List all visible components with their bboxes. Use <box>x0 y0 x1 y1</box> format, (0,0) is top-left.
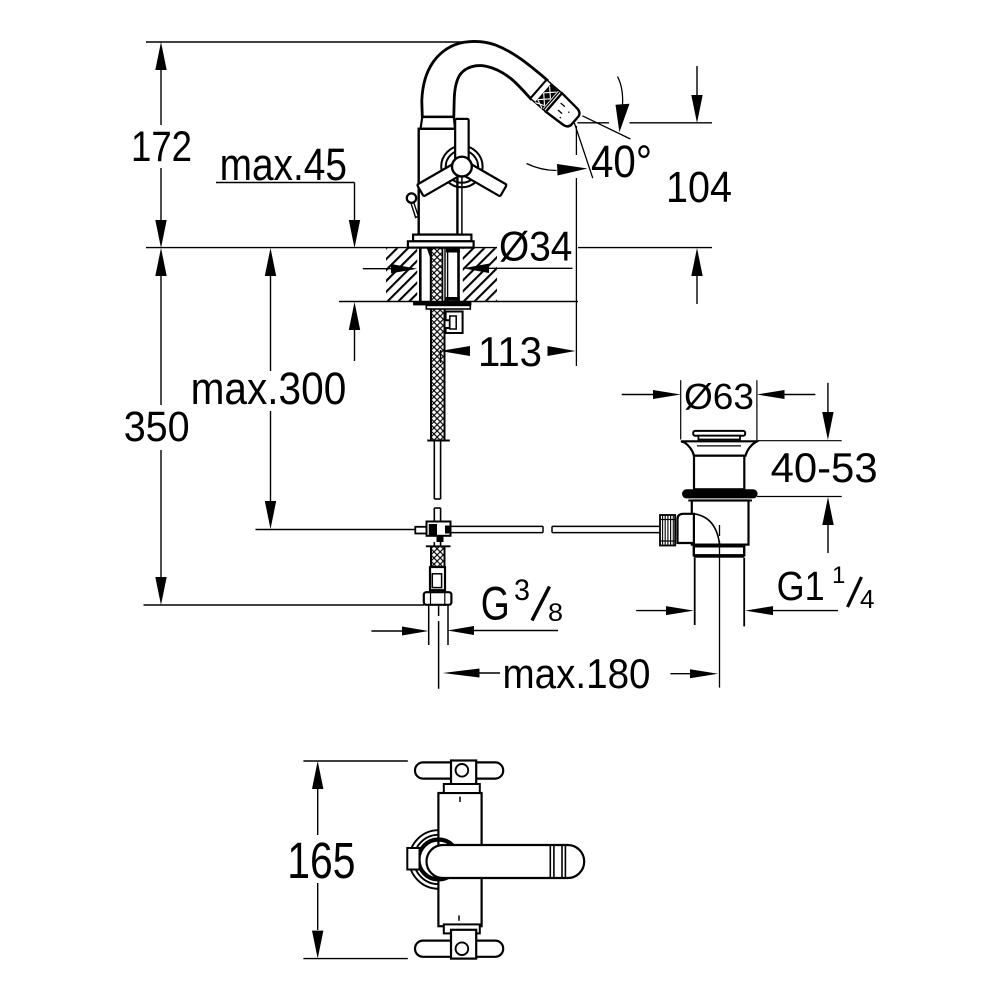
svg-text:G1: G1 <box>777 563 825 609</box>
svg-text:104: 104 <box>666 163 732 212</box>
svg-text:40-53: 40-53 <box>771 444 878 491</box>
svg-text:8: 8 <box>548 599 563 627</box>
svg-text:1: 1 <box>832 562 845 589</box>
svg-text:165: 165 <box>287 832 355 889</box>
svg-text:172: 172 <box>131 123 192 171</box>
svg-text:Ø34: Ø34 <box>499 223 572 270</box>
svg-text:max.180: max.180 <box>503 650 651 697</box>
svg-text:40°: 40° <box>591 136 652 187</box>
svg-text:max.300: max.300 <box>191 363 347 414</box>
svg-text:113: 113 <box>478 328 542 375</box>
svg-text:4: 4 <box>860 584 874 614</box>
svg-text:Ø63: Ø63 <box>684 376 754 417</box>
svg-text:3: 3 <box>514 574 530 607</box>
svg-text:G: G <box>481 577 510 630</box>
svg-text:350: 350 <box>124 403 190 451</box>
